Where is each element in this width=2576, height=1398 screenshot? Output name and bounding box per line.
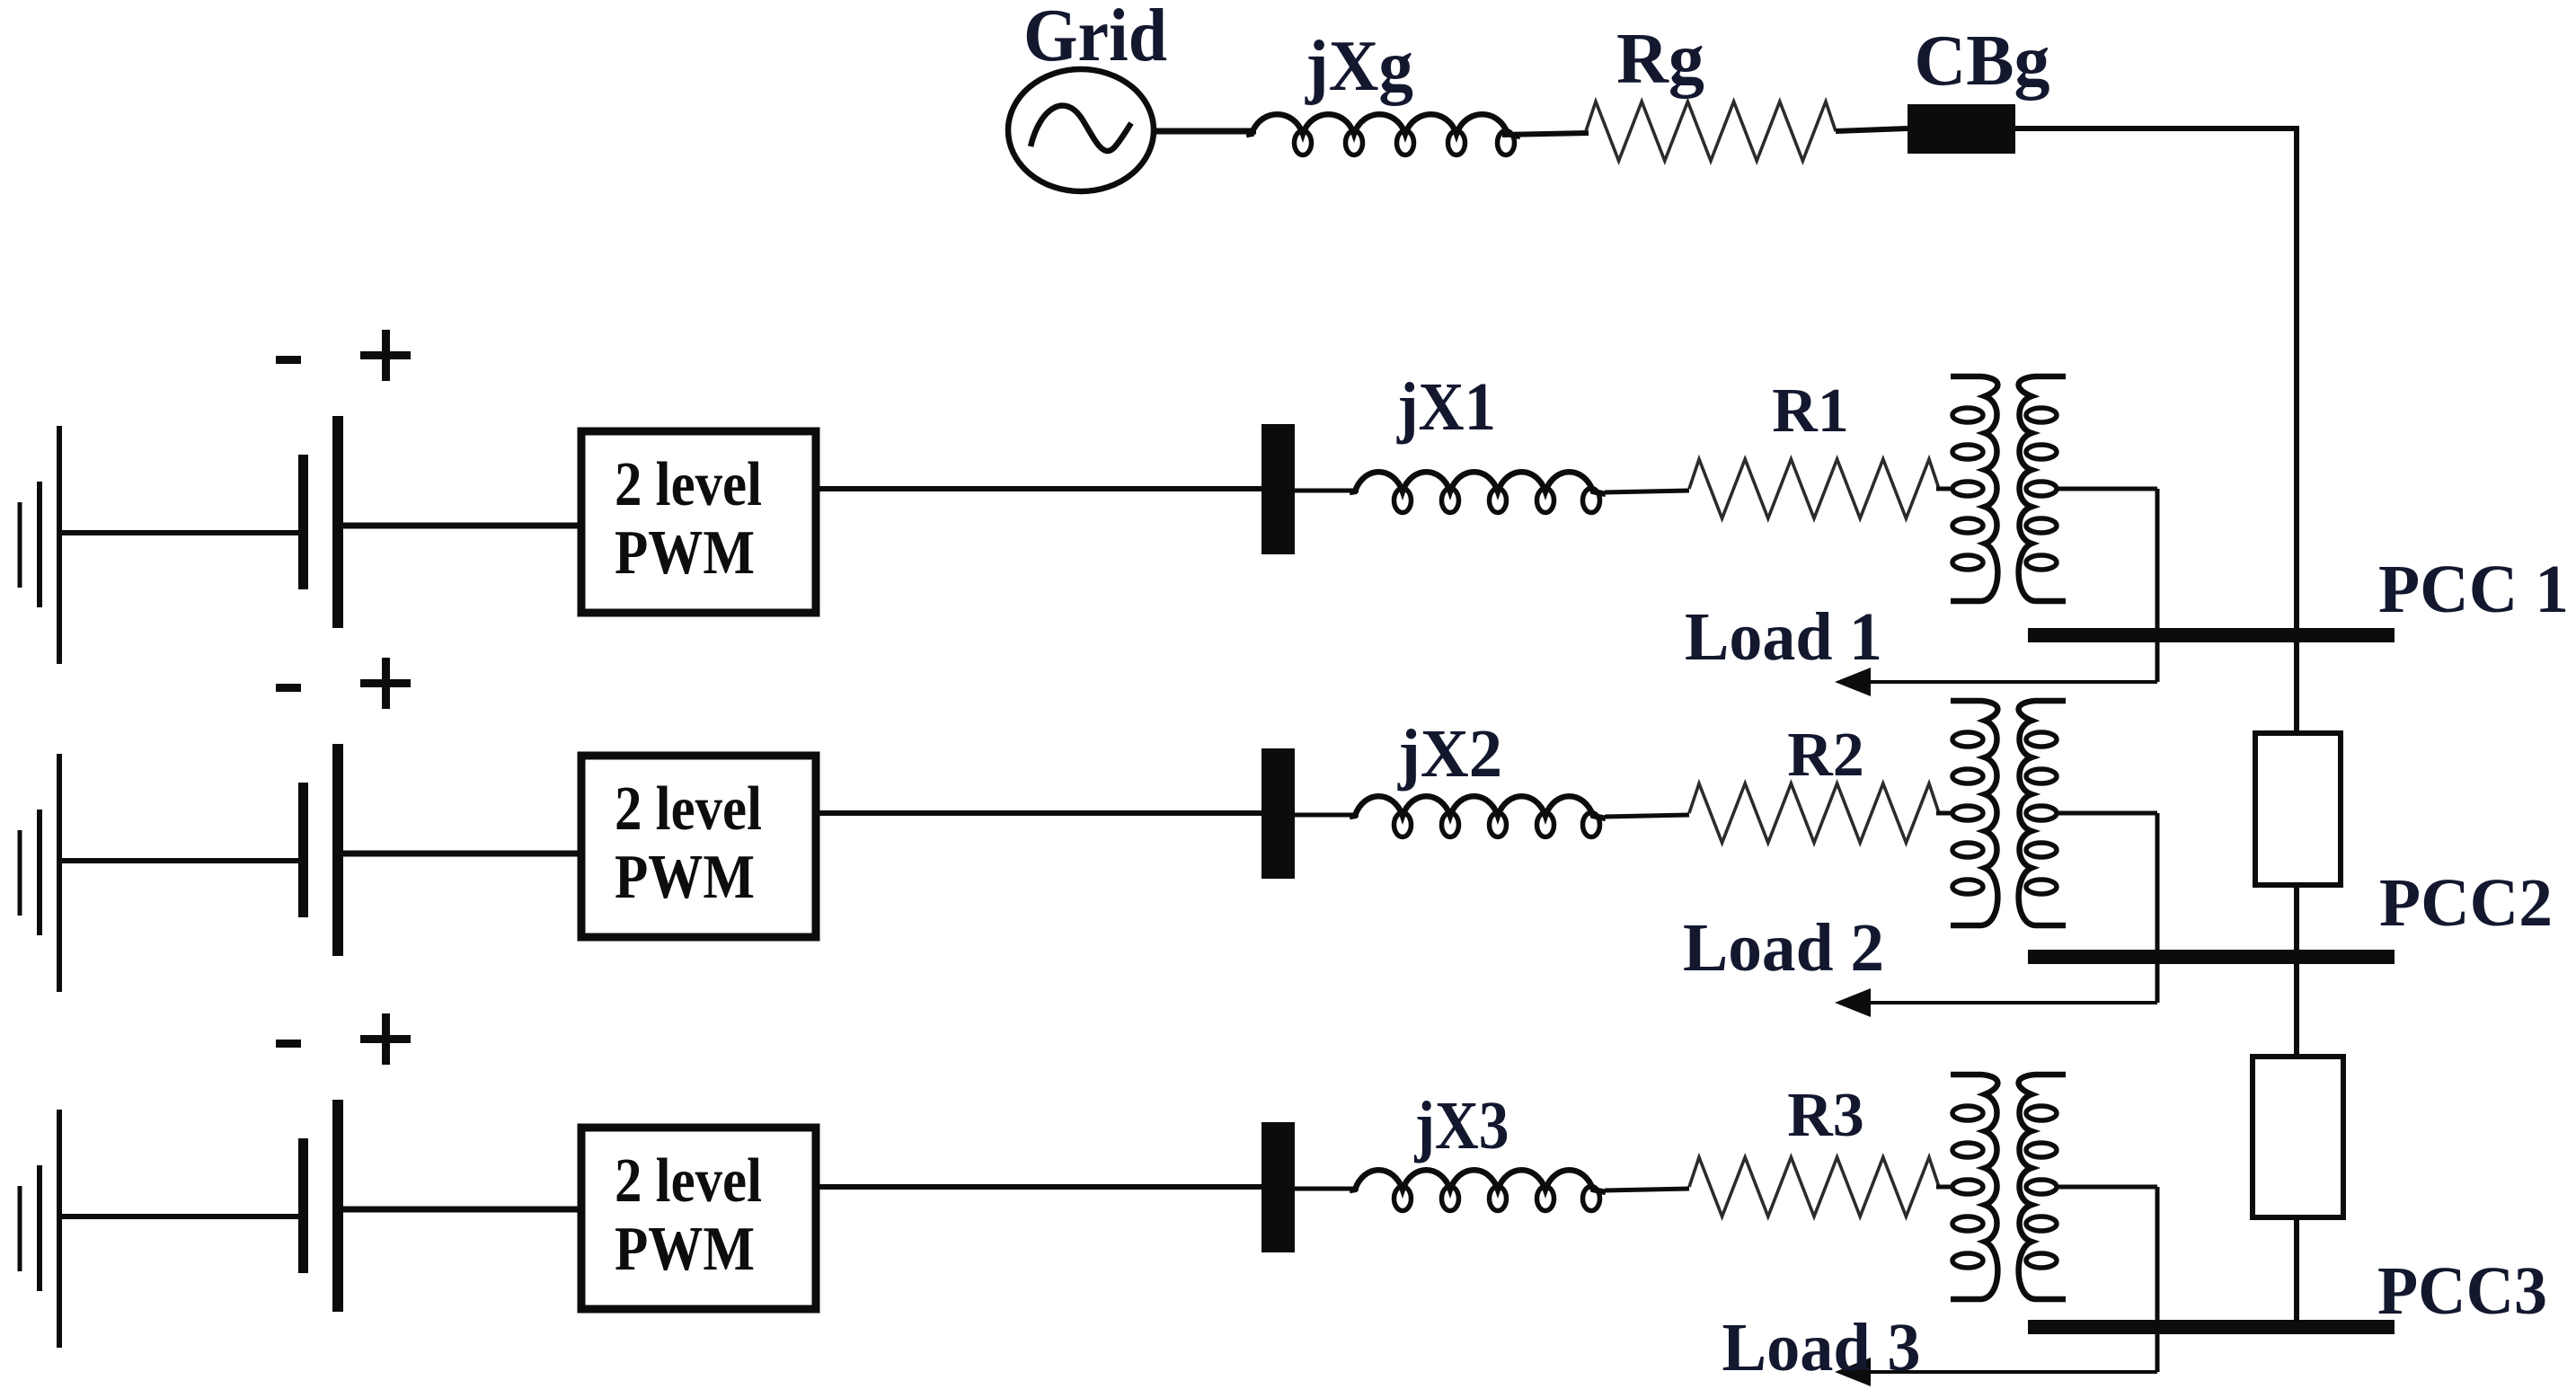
transformer T1 secondary winding xyxy=(2019,376,2066,601)
svg-text:PWM: PWM xyxy=(615,518,755,588)
wire CB2 to jX2 xyxy=(1295,813,1359,818)
ground (source 2) xyxy=(20,754,59,992)
svg-text:jX2: jX2 xyxy=(1397,716,1502,792)
wire jXg to Rg xyxy=(1502,133,1589,135)
svg-text:Load 2: Load 2 xyxy=(1683,910,1884,986)
wire R3 to transformer T3 xyxy=(1936,1185,1955,1190)
label - (battery 3) xyxy=(276,1040,301,1048)
line impedance Z23 between PCC2 and PCC3 xyxy=(2253,1057,2343,1217)
inductor jX2 xyxy=(1350,796,1606,836)
svg-text:PCC3: PCC3 xyxy=(2377,1253,2547,1329)
inductor jXg xyxy=(1246,114,1520,155)
wire vertical drop to load 2 xyxy=(2156,813,2160,1003)
wire battery to PWM box 3 xyxy=(342,1207,585,1213)
svg-text:2 level: 2 level xyxy=(615,1146,762,1216)
main bus vertical (between Z12 and Z23) xyxy=(2294,885,2299,1057)
wire CB1 to jX1 xyxy=(1295,489,1359,493)
svg-text:jXg: jXg xyxy=(1305,27,1413,106)
wire jX3 to R3 xyxy=(1605,1189,1689,1190)
svg-text:Rg: Rg xyxy=(1616,20,1704,99)
bus bar PCC3 xyxy=(2028,1320,2395,1334)
wire PWM box to breaker CB1 xyxy=(816,486,1263,491)
wire T3 secondary to drop node xyxy=(2056,1185,2157,1190)
main bus vertical (Z23 to PCC3) xyxy=(2294,1217,2299,1327)
svg-text:CBg: CBg xyxy=(1914,22,2049,101)
battery Vdc3 xyxy=(298,1100,343,1312)
svg-text:PWM: PWM xyxy=(615,1215,755,1284)
wire CBg to main bus corner xyxy=(2015,126,2299,131)
svg-text:2 level: 2 level xyxy=(615,774,762,844)
converter box 2-level PWM 1 xyxy=(581,431,816,613)
wire battery to PWM box 2 xyxy=(342,851,585,857)
wire ground to battery 1 xyxy=(59,530,300,535)
label + (battery 1) xyxy=(360,330,411,381)
svg-text:Load 3: Load 3 xyxy=(1722,1310,1921,1385)
breaker CB1 xyxy=(1261,424,1295,554)
transformer T1 primary winding xyxy=(1951,376,1997,601)
transformer T2 secondary winding xyxy=(2019,701,2066,925)
label - (battery 2) xyxy=(276,684,301,692)
label + (battery 3) xyxy=(360,1013,411,1065)
wire grid source to jXg xyxy=(1156,128,1256,135)
converter box 2-level PWM 3 xyxy=(581,1128,816,1309)
svg-text:R3: R3 xyxy=(1787,1081,1864,1150)
wire Rg to CBg xyxy=(1836,128,1908,131)
transformer T2 primary winding xyxy=(1951,701,1997,925)
svg-text:PWM: PWM xyxy=(615,843,755,912)
svg-text:jX3: jX3 xyxy=(1414,1088,1509,1164)
transformer T3 primary winding xyxy=(1951,1075,1997,1299)
wire PWM box to breaker CB3 xyxy=(816,1184,1263,1190)
main bus vertical (top segment to impedance box Z12) xyxy=(2294,126,2299,733)
load 1 arrow xyxy=(1835,668,2157,696)
battery Vdc2 xyxy=(298,744,343,956)
breaker CB2 xyxy=(1261,748,1295,879)
svg-text:PCC2: PCC2 xyxy=(2379,865,2553,941)
battery Vdc1 xyxy=(298,416,343,628)
wire ground to battery 2 xyxy=(59,858,300,863)
label + (battery 2) xyxy=(360,658,411,709)
inductor jX1 xyxy=(1350,472,1606,512)
line impedance Z12 between PCC1 and PCC2 xyxy=(2255,733,2341,885)
bus bar PCC1 xyxy=(2028,628,2395,642)
resistor R1 xyxy=(1689,459,1939,518)
svg-text:R1: R1 xyxy=(1772,376,1849,446)
wire battery to PWM box 1 xyxy=(342,523,585,529)
wire R2 to transformer T2 xyxy=(1936,811,1955,816)
svg-text:Load 1: Load 1 xyxy=(1685,599,1882,675)
resistor Rg xyxy=(1586,102,1836,161)
breaker CB3 xyxy=(1261,1122,1295,1252)
ground (source 3) xyxy=(20,1110,59,1348)
resistor R2 xyxy=(1689,783,1939,843)
wire PWM box to breaker CB2 xyxy=(816,810,1263,816)
svg-text:PCC 1: PCC 1 xyxy=(2378,552,2569,627)
svg-text:R2: R2 xyxy=(1787,721,1864,790)
svg-text:2 level: 2 level xyxy=(615,450,762,519)
wire CB3 to jX3 xyxy=(1295,1187,1359,1191)
circuit breaker CBg xyxy=(1908,104,2015,154)
svg-text:jX1: jX1 xyxy=(1396,369,1496,445)
load 2 arrow xyxy=(1835,988,2157,1017)
wire vertical drop to load 3 xyxy=(2156,1187,2160,1372)
wire T2 secondary to drop node xyxy=(2056,811,2157,816)
inductor jX3 xyxy=(1350,1170,1606,1210)
bus bar PCC2 xyxy=(2028,950,2395,964)
load 3 arrow xyxy=(1835,1358,2157,1386)
AC source (Grid) xyxy=(1008,69,1154,191)
wire T1 secondary to drop node xyxy=(2056,487,2157,491)
resistor R3 xyxy=(1689,1157,1939,1217)
ground (source 1) xyxy=(20,426,59,664)
wire jX1 to R1 xyxy=(1605,491,1689,492)
wire jX2 to R2 xyxy=(1605,815,1689,817)
wire vertical drop to load 1 xyxy=(2156,489,2160,682)
wire R1 to transformer T1 xyxy=(1936,487,1955,491)
transformer T3 secondary winding xyxy=(2019,1075,2066,1299)
svg-text:Grid: Grid xyxy=(1023,0,1167,77)
converter box 2-level PWM 2 xyxy=(581,756,816,937)
wire ground to battery 3 xyxy=(59,1214,300,1219)
label - (battery 1) xyxy=(276,356,301,364)
